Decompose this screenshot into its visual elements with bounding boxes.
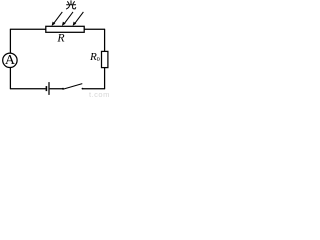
- svg-text:A: A: [5, 53, 16, 68]
- svg-text:t.com: t.com: [89, 90, 110, 97]
- svg-text:0: 0: [97, 57, 100, 63]
- svg-text:R: R: [56, 31, 65, 45]
